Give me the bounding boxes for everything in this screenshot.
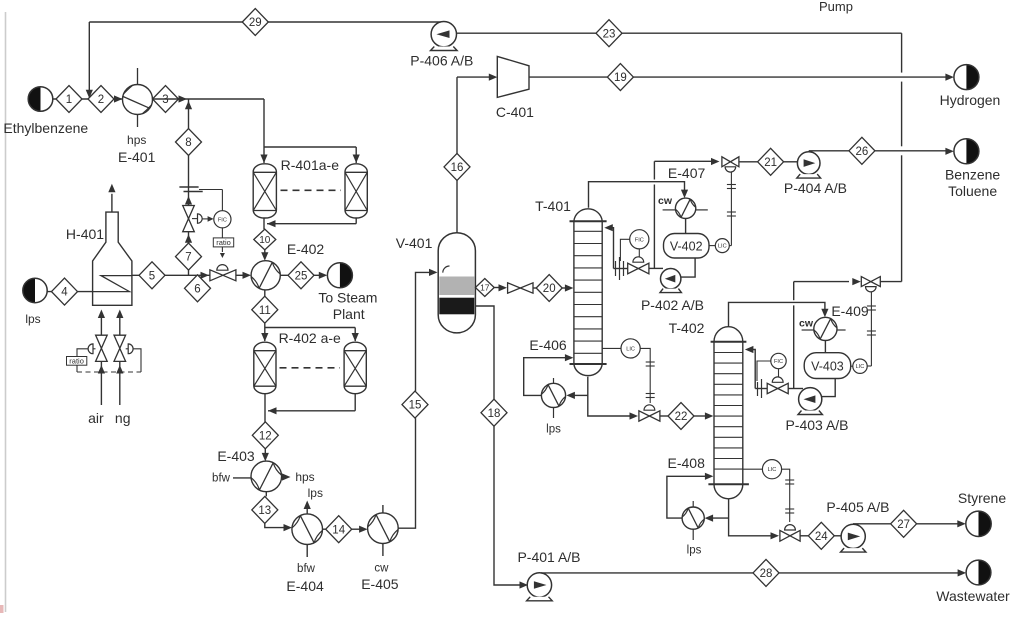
svg-text:cw: cw <box>799 318 814 330</box>
wire E-409 to V-403 <box>824 341 826 353</box>
controller LIC T-401 <box>602 347 621 349</box>
svg-text:FIC: FIC <box>218 217 227 223</box>
stream diamond 25 <box>288 262 314 289</box>
reactor R-401 left vessel <box>253 164 276 218</box>
signal air actuator to ratio <box>77 349 88 357</box>
svg-text:26: 26 <box>856 146 869 158</box>
stream diamond 23 <box>596 20 622 47</box>
svg-text:R-402 a-e: R-402 a-e <box>279 330 341 346</box>
reactor R-401 right vessel <box>345 164 367 218</box>
stream diamond 26 <box>849 137 875 164</box>
signal ratio to valve <box>221 247 223 252</box>
svg-text:17: 17 <box>480 283 490 293</box>
reflux line ticks <box>615 261 617 276</box>
svg-text:H-401: H-401 <box>66 226 104 242</box>
svg-text:LIC: LIC <box>768 467 777 473</box>
svg-text:29: 29 <box>249 17 262 29</box>
wire bfw into E-404 <box>306 545 308 558</box>
wire valve to 22 <box>660 415 668 417</box>
wire R-402 outlets <box>264 394 266 425</box>
signal FIC T-402 <box>757 361 771 381</box>
feed stream Ethylbenzene symbol <box>28 87 40 112</box>
svg-text:12: 12 <box>259 430 272 442</box>
wire cw stubs E-405 <box>382 505 384 513</box>
wire 17 to valve <box>494 287 500 289</box>
compressor C-401 <box>497 56 529 97</box>
dashed tie R-402 <box>280 367 341 369</box>
stream diamond 17 <box>475 279 494 297</box>
pump P-401 A/B <box>527 573 551 597</box>
stream diamond 13 <box>252 496 278 523</box>
stream diamond 4 <box>52 278 78 305</box>
wire 24 to P-405 <box>834 535 841 537</box>
svg-text:C-401: C-401 <box>496 104 534 120</box>
svg-text:15: 15 <box>409 400 422 412</box>
wire E-408 loop <box>712 517 729 519</box>
svg-text:24: 24 <box>815 531 828 543</box>
svg-text:E-406: E-406 <box>529 337 567 353</box>
product Hydrogen symbol <box>966 65 978 90</box>
svg-text:E-409: E-409 <box>831 303 869 319</box>
actuator dome overhead valve <box>725 167 736 172</box>
wire V-403 to P-403 <box>822 379 835 397</box>
svg-text:ng: ng <box>115 410 131 426</box>
column T-401 shell <box>574 209 602 221</box>
controller LIC V-402 <box>709 245 716 247</box>
wire 12 to E-403 <box>264 449 266 455</box>
wire valve to 24 <box>800 535 808 537</box>
instrument tap to FIC <box>199 189 222 191</box>
wire R-401 right branch <box>264 146 356 148</box>
stream diamond 11 <box>252 296 278 323</box>
wire T-401 reflux <box>614 268 628 270</box>
signal ratio dashed <box>76 365 78 372</box>
svg-text:E-402: E-402 <box>287 241 325 257</box>
valve on ng line <box>114 335 126 348</box>
actuator dome T-402 bottoms valve <box>785 525 796 530</box>
wire stream 8 riser <box>188 99 190 275</box>
svg-text:4: 4 <box>61 287 68 299</box>
svg-text:lps: lps <box>308 486 323 500</box>
svg-text:P-403 A/B: P-403 A/B <box>785 417 848 433</box>
wire valve to E-402 <box>236 274 244 276</box>
reactor R-402 right vessel <box>344 342 366 394</box>
signal valve to LIC V-403 <box>870 292 872 366</box>
svg-text:P-401 A/B: P-401 A/B <box>517 549 580 565</box>
svg-text:lps: lps <box>546 424 561 436</box>
V-401 inlet deflector <box>443 266 450 273</box>
stream diamond 28 <box>753 559 779 586</box>
T-402 bottom flange <box>708 483 749 485</box>
svg-text:8: 8 <box>185 137 191 149</box>
valve on stream 8 <box>183 206 195 219</box>
valve positioner actuator D <box>192 218 198 220</box>
svg-text:E-401: E-401 <box>118 149 156 165</box>
exchanger E-402 <box>251 261 280 290</box>
stream diamond 27 <box>891 510 917 537</box>
exchanger E-409 condenser <box>814 317 837 340</box>
wire 10 to E-402 <box>264 250 266 254</box>
stream diamond 16 <box>444 153 470 180</box>
valve recycle <box>861 277 871 287</box>
exchanger E-406 reboiler <box>541 383 565 407</box>
svg-text:ratio: ratio <box>216 238 231 247</box>
svg-text:T-402: T-402 <box>669 320 705 336</box>
svg-text:20: 20 <box>543 283 556 295</box>
valve T-401 reflux FIC <box>628 263 639 274</box>
svg-text:lps: lps <box>25 312 40 326</box>
product Wastewater symbol <box>979 560 991 585</box>
svg-text:P-405 A/B: P-405 A/B <box>826 499 889 515</box>
pump P-406 A/B <box>431 22 456 47</box>
stream diamond 18 <box>481 399 507 426</box>
wire valve to 20 <box>533 287 536 289</box>
signal valve to LIC V-402 <box>730 172 732 246</box>
stream diamond 6 <box>185 275 211 302</box>
svg-text:Benzene: Benzene <box>945 167 1000 183</box>
drum V-403 <box>804 353 851 379</box>
T-401 bottom flange <box>570 363 607 365</box>
drum V-402 <box>664 234 710 259</box>
wire furnace outlet 5 to valve <box>132 274 210 276</box>
svg-text:hps: hps <box>127 133 146 147</box>
actuator dome reflux valve <box>633 257 644 262</box>
wire distillate riser <box>653 185 655 269</box>
product To Steam Plant symbol <box>340 263 353 288</box>
svg-text:LIC: LIC <box>718 244 727 250</box>
T-402 top flange <box>711 341 747 343</box>
svg-text:13: 13 <box>258 505 271 517</box>
svg-text:Wastewater: Wastewater <box>936 588 1010 604</box>
signal LIC to bottoms valve <box>640 348 650 403</box>
svg-text:lps: lps <box>687 545 702 557</box>
svg-text:V-402: V-402 <box>670 240 703 254</box>
stream diamond 20 <box>536 275 562 302</box>
actuator dome T-402 reflux valve <box>772 377 783 382</box>
wire P-401 discharge 28 <box>541 572 753 574</box>
orifice plate on stream 8 <box>179 186 198 188</box>
V-401 light phase band <box>439 277 474 296</box>
controller LIC T-402 <box>743 468 763 470</box>
svg-text:T-401: T-401 <box>535 198 571 214</box>
signal LIC T-402 to valve <box>782 469 790 522</box>
wire recycle riser left <box>793 305 795 388</box>
wire 11 to R-402 <box>264 323 266 341</box>
exchanger E-404 <box>292 514 323 545</box>
pump P-402 A/B <box>661 269 681 289</box>
wire hps out of E-403 <box>282 476 285 478</box>
svg-text:bfw: bfw <box>297 563 316 575</box>
valve overhead product <box>722 157 731 167</box>
svg-text:22: 22 <box>675 411 688 423</box>
wire recycle 29 drop <box>88 22 90 90</box>
wire T-402 bottoms <box>729 499 772 536</box>
wire V-401 bottoms 18 <box>475 306 494 399</box>
valve on air line <box>96 335 108 348</box>
svg-text:To Steam: To Steam <box>318 290 377 306</box>
pump P-403 A/B <box>799 388 822 411</box>
wire valve to 21 <box>739 161 758 163</box>
valve T-401 bottoms <box>639 411 650 421</box>
wire E-401 to R-401 corner <box>153 98 265 100</box>
wire air line <box>100 362 102 405</box>
wire T-402 overhead to E-409 <box>729 302 825 326</box>
svg-text:6: 6 <box>194 283 200 295</box>
svg-text:10: 10 <box>259 235 271 246</box>
svg-text:23: 23 <box>603 28 616 40</box>
stream diamond 22 <box>668 403 694 430</box>
svg-text:25: 25 <box>295 270 308 282</box>
svg-text:E-403: E-403 <box>217 448 255 464</box>
pump P-404 A/B <box>797 152 820 175</box>
svg-text:cw: cw <box>374 563 389 575</box>
actuator dome T-401 bottoms valve <box>644 405 655 410</box>
air valve actuator <box>93 348 96 350</box>
stream diamond 15 <box>402 391 428 418</box>
stream diamond 2 <box>88 86 114 113</box>
svg-text:E-404: E-404 <box>286 578 324 594</box>
valve stream 17 <box>508 283 521 293</box>
exchanger E-407 condenser <box>675 198 695 218</box>
stream diamond 10 <box>254 229 276 250</box>
svg-text:3: 3 <box>162 94 168 106</box>
svg-text:14: 14 <box>332 524 345 536</box>
svg-text:P-404 A/B: P-404 A/B <box>784 180 847 196</box>
svg-text:27: 27 <box>897 519 910 531</box>
stream diamond 14 <box>326 516 352 543</box>
stream diamond 29 <box>242 9 268 36</box>
stream diamond 21 <box>758 148 784 175</box>
wire T-402 reflux <box>755 388 767 390</box>
svg-text:E-407: E-407 <box>668 165 706 181</box>
exchanger E-405 <box>368 513 399 544</box>
wire 20 into T-401 <box>562 287 566 289</box>
T-401 top flange <box>570 220 607 222</box>
wire ng line <box>119 362 121 405</box>
arrowheads on stream 8 riser <box>185 101 192 110</box>
wire P-403 discharge header <box>788 388 803 390</box>
stream diamond 1 <box>56 86 82 113</box>
svg-text:cw: cw <box>658 195 673 207</box>
svg-text:hps: hps <box>295 470 314 484</box>
dashed tie R-401 <box>281 189 342 191</box>
ratio box fuel <box>213 238 233 247</box>
svg-text:E-405: E-405 <box>361 576 399 592</box>
actuator dome E-402 valve <box>217 265 228 271</box>
stream diamond 24 <box>808 522 834 549</box>
wire V-402 to P-402 <box>681 258 695 277</box>
wire E-406 loop <box>573 394 588 396</box>
svg-text:5: 5 <box>149 270 155 282</box>
stream diamond 19 <box>607 64 633 91</box>
svg-text:P-406 A/B: P-406 A/B <box>410 53 473 69</box>
wire lps out of E-404 <box>306 507 308 514</box>
svg-text:LIC: LIC <box>626 346 635 352</box>
furnace coil <box>93 276 132 292</box>
svg-text:1: 1 <box>66 94 72 106</box>
svg-text:Plant: Plant <box>333 306 365 322</box>
control valve into E-402 <box>210 270 223 281</box>
svg-text:Ethylbenzene: Ethylbenzene <box>3 120 88 136</box>
stream diamond 5 <box>139 262 165 289</box>
svg-text:16: 16 <box>451 162 464 174</box>
wire E-403 to 13 <box>265 492 267 497</box>
stream diamond 7 <box>176 243 202 270</box>
wire E-407 to V-402 <box>685 219 687 234</box>
page edge artifact <box>5 12 7 612</box>
actuator dome recycle valve <box>866 287 877 292</box>
vessel V-401 <box>438 233 475 333</box>
svg-text:7: 7 <box>185 252 191 264</box>
controller FIC T-401 <box>630 230 649 249</box>
wire P-405 discharge 27 <box>853 523 891 525</box>
stream diamond 8 <box>176 129 202 156</box>
svg-text:E-408: E-408 <box>668 455 706 471</box>
wire P-406 suction 23 <box>456 32 901 34</box>
svg-text:21: 21 <box>764 157 777 169</box>
stream diamond 12 <box>252 422 278 449</box>
svg-text:V-401: V-401 <box>396 235 433 251</box>
V-401 heavy phase band <box>439 298 474 315</box>
T-402 trays <box>714 352 743 354</box>
wire V-401 vapor to C-401 <box>456 180 458 232</box>
wire P-404 discharge 26 <box>809 150 849 152</box>
wire T-401 bottoms <box>588 377 632 416</box>
wire T-401 overhead to E-407 <box>589 182 685 208</box>
reactor R-402 left vessel <box>254 342 276 394</box>
svg-text:Styrene: Styrene <box>958 490 1006 506</box>
svg-text:Pump: Pump <box>819 0 853 14</box>
wire R-401 outlets <box>263 218 265 229</box>
controller FIC fuel <box>214 211 231 228</box>
wire E-402 bottom to 11 <box>264 290 266 296</box>
svg-text:FIC: FIC <box>774 359 783 365</box>
wire 21 to P-404 <box>784 161 798 163</box>
svg-text:2: 2 <box>98 94 104 106</box>
product Benzene Toluene symbol <box>966 139 978 164</box>
wire lps to furnace <box>47 291 92 293</box>
pump P-405 A/B <box>841 524 865 548</box>
valve T-402 reflux FIC <box>767 383 778 393</box>
ratio box air-ng <box>67 357 87 366</box>
svg-text:LIC: LIC <box>856 364 865 370</box>
T-401 trays <box>574 230 602 232</box>
wire P-402 discharge header <box>649 267 663 269</box>
signal FIC T-401 <box>620 239 629 261</box>
wire R-402 right branch <box>265 327 355 329</box>
wire 13 to E-404 <box>265 523 285 527</box>
wire bfw into E-403 <box>233 477 251 479</box>
exchanger E-408 reboiler <box>682 507 704 529</box>
stream diamond 3 <box>153 86 179 113</box>
ng valve actuator <box>126 348 129 350</box>
svg-text:air: air <box>88 410 104 426</box>
valve T-402 bottoms <box>780 530 790 541</box>
svg-text:18: 18 <box>488 408 501 420</box>
exchanger E-403 <box>251 461 282 492</box>
svg-text:Toluene: Toluene <box>948 183 997 199</box>
wire 14 to E-405 <box>323 528 327 530</box>
exchanger E-401 <box>123 85 153 115</box>
svg-text:28: 28 <box>760 568 773 580</box>
column T-402 shell <box>714 327 743 342</box>
reflux ticks T-402 <box>757 382 759 396</box>
svg-text:ratio: ratio <box>69 357 84 366</box>
wire E-405 to V-401 <box>398 418 415 528</box>
signal FIC to ratio <box>221 228 223 238</box>
feed stream lps symbol <box>23 278 35 302</box>
wire 22 into T-402 <box>694 415 706 417</box>
furnace H-401 <box>93 212 132 305</box>
wire P-406 discharge 29 <box>89 21 440 23</box>
furnace stack arrow <box>111 194 113 212</box>
controller FIC T-402 <box>771 353 786 368</box>
svg-text:FIC: FIC <box>635 237 644 243</box>
svg-text:19: 19 <box>614 72 627 84</box>
svg-text:P-402 A/B: P-402 A/B <box>641 297 704 313</box>
wire E-402 to steam plant <box>280 274 288 276</box>
svg-text:Hydrogen: Hydrogen <box>940 92 1001 108</box>
product Styrene symbol <box>979 511 992 536</box>
wire recycle riser right <box>901 33 903 72</box>
svg-text:11: 11 <box>259 305 271 317</box>
controller LIC V-403 <box>851 365 853 367</box>
svg-text:V-403: V-403 <box>811 360 844 374</box>
wire C-401 to Hydrogen <box>529 76 607 78</box>
svg-text:bfw: bfw <box>212 473 231 485</box>
svg-text:R-401a-e: R-401a-e <box>281 157 340 173</box>
wire feed line to E-401 <box>53 98 123 100</box>
